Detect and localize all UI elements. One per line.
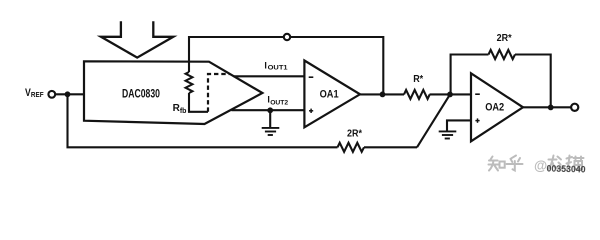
resistor Rfb zigzag (186, 72, 193, 93)
char long (548, 156, 564, 170)
svg-text:OUT1: OUT1 (268, 64, 288, 71)
OA1 plus pin (309, 109, 313, 113)
svg-text:I: I (264, 60, 267, 70)
label VREF (25, 87, 44, 99)
svg-text:@: @ (534, 158, 547, 173)
wire Rfb bottom lead (189, 93, 208, 112)
watermark zhihu (489, 156, 584, 174)
label 2R* bottom (347, 128, 363, 140)
ground under OA2 (439, 131, 457, 138)
wire IOUT2 ground drop (269, 110, 271, 127)
svg-text:Rfb: Rfb (173, 103, 187, 115)
svg-text:OUT2: OUT2 (270, 99, 288, 106)
op-amp OA1 (304, 61, 360, 128)
svg-text:2R*: 2R* (347, 128, 363, 140)
op-amp OA2 (471, 73, 523, 141)
label Rfb (173, 103, 187, 115)
label DAC0830 (122, 88, 160, 100)
svg-text:OA1: OA1 (320, 89, 339, 101)
wire diagonal up to summing node (417, 94, 450, 147)
label OA1 (320, 89, 339, 101)
wire OA2 output (523, 106, 571, 108)
dashed internal net (208, 74, 230, 112)
label 2R* top (497, 32, 513, 44)
node output junction dot (548, 105, 554, 111)
svg-text:OA2: OA2 (485, 102, 504, 114)
wire IOUT2 (231, 109, 304, 111)
char hu (507, 156, 523, 171)
DAC0830 body pentagon (84, 61, 262, 124)
char mao (567, 156, 584, 171)
svg-text:R*: R* (413, 73, 424, 85)
terminal VREF input open circle (48, 91, 55, 98)
wire OA1 output (360, 93, 404, 95)
svg-text:00353040: 00353040 (546, 164, 585, 175)
node OA1 output dot (380, 92, 386, 98)
wire VREF drop to bottom rail (68, 94, 338, 147)
label R* (413, 73, 424, 85)
node IOUT2 junction dot (267, 107, 273, 113)
terminal output open circle (571, 104, 578, 111)
wire 2R* to output (515, 55, 551, 108)
OA2 minus pin (475, 93, 480, 95)
wire 2R* feedback loop (451, 55, 489, 95)
svg-text:2R*: 2R* (497, 32, 513, 44)
OA1 minus pin (309, 76, 314, 78)
wire VREF to DAC (55, 93, 84, 95)
resistor 2R* bottom zigzag (338, 143, 364, 152)
wire feedback top rail (189, 37, 383, 94)
terminal open circle on top rail (284, 34, 290, 40)
char at (534, 158, 547, 173)
label IOUT1 (264, 60, 287, 71)
wire IOUT1 (233, 75, 304, 77)
digital input arrow (101, 21, 173, 57)
ground under IOUT2 (262, 128, 280, 135)
svg-text:REF: REF (31, 90, 44, 99)
wire R* to OA2 (430, 93, 472, 95)
label IOUT2 (267, 95, 288, 107)
svg-text:DAC0830: DAC0830 (122, 88, 160, 100)
node summing junction dot (447, 92, 453, 98)
resistor 2R* top zigzag (489, 50, 516, 59)
char zhi (489, 157, 505, 171)
label OA2 (485, 102, 504, 114)
wire bottom rail to diagonal (364, 146, 417, 148)
resistor R* zigzag (404, 90, 430, 99)
wire OA2 plus to ground (447, 120, 471, 130)
watermark part number (546, 164, 585, 175)
node VREF junction dot (65, 91, 71, 97)
OA2 plus pin (475, 118, 479, 122)
